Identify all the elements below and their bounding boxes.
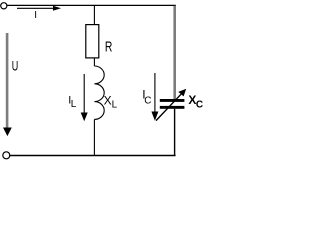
svg-text:R: R: [105, 39, 113, 56]
svg-text:L: L: [71, 99, 77, 110]
svg-text:I: I: [34, 10, 37, 21]
svg-text:X: X: [104, 94, 112, 108]
svg-text:U: U: [12, 59, 18, 74]
svg-text:C: C: [196, 100, 203, 111]
svg-text:C: C: [144, 96, 151, 107]
svg-text:L: L: [112, 100, 118, 111]
